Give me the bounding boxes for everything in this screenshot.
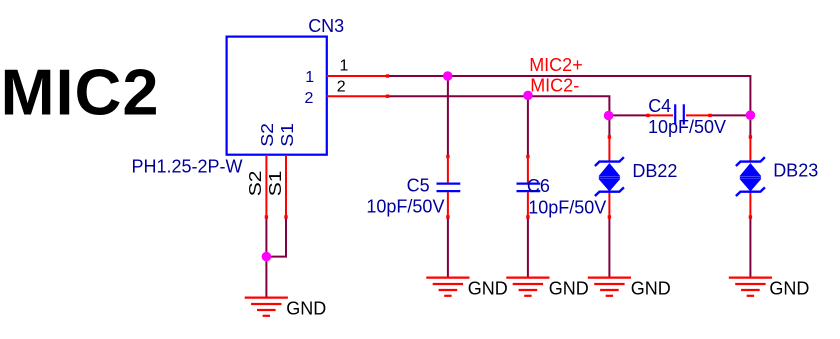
svg-text:MIC2+: MIC2+ (529, 55, 583, 75)
svg-text:10pF/50V: 10pF/50V (648, 117, 726, 137)
svg-text:1: 1 (305, 69, 314, 86)
svg-text:GND: GND (631, 279, 671, 299)
svg-text:GND: GND (769, 279, 809, 299)
svg-text:MIC2-: MIC2- (530, 76, 579, 96)
svg-text:S2: S2 (246, 171, 266, 197)
svg-text:10pF/50V: 10pF/50V (528, 197, 606, 217)
svg-text:C6: C6 (527, 176, 550, 196)
svg-text:2: 2 (337, 78, 346, 95)
svg-text:GND: GND (468, 279, 508, 299)
svg-text:S2: S2 (256, 123, 276, 147)
svg-text:DB23: DB23 (773, 161, 818, 181)
svg-text:GND: GND (549, 279, 589, 299)
svg-text:MIC2: MIC2 (1, 56, 160, 129)
svg-text:S1: S1 (276, 123, 296, 147)
svg-text:10pF/50V: 10pF/50V (366, 196, 444, 216)
svg-text:S1: S1 (265, 171, 285, 197)
svg-text:GND: GND (286, 298, 326, 318)
svg-text:1: 1 (340, 58, 349, 75)
svg-text:CN3: CN3 (308, 16, 344, 36)
svg-text:2: 2 (305, 90, 314, 107)
svg-text:PH1.25-2P-W: PH1.25-2P-W (132, 156, 243, 176)
svg-text:DB22: DB22 (632, 161, 677, 181)
svg-text:C5: C5 (407, 176, 430, 196)
svg-text:C4: C4 (648, 96, 671, 116)
